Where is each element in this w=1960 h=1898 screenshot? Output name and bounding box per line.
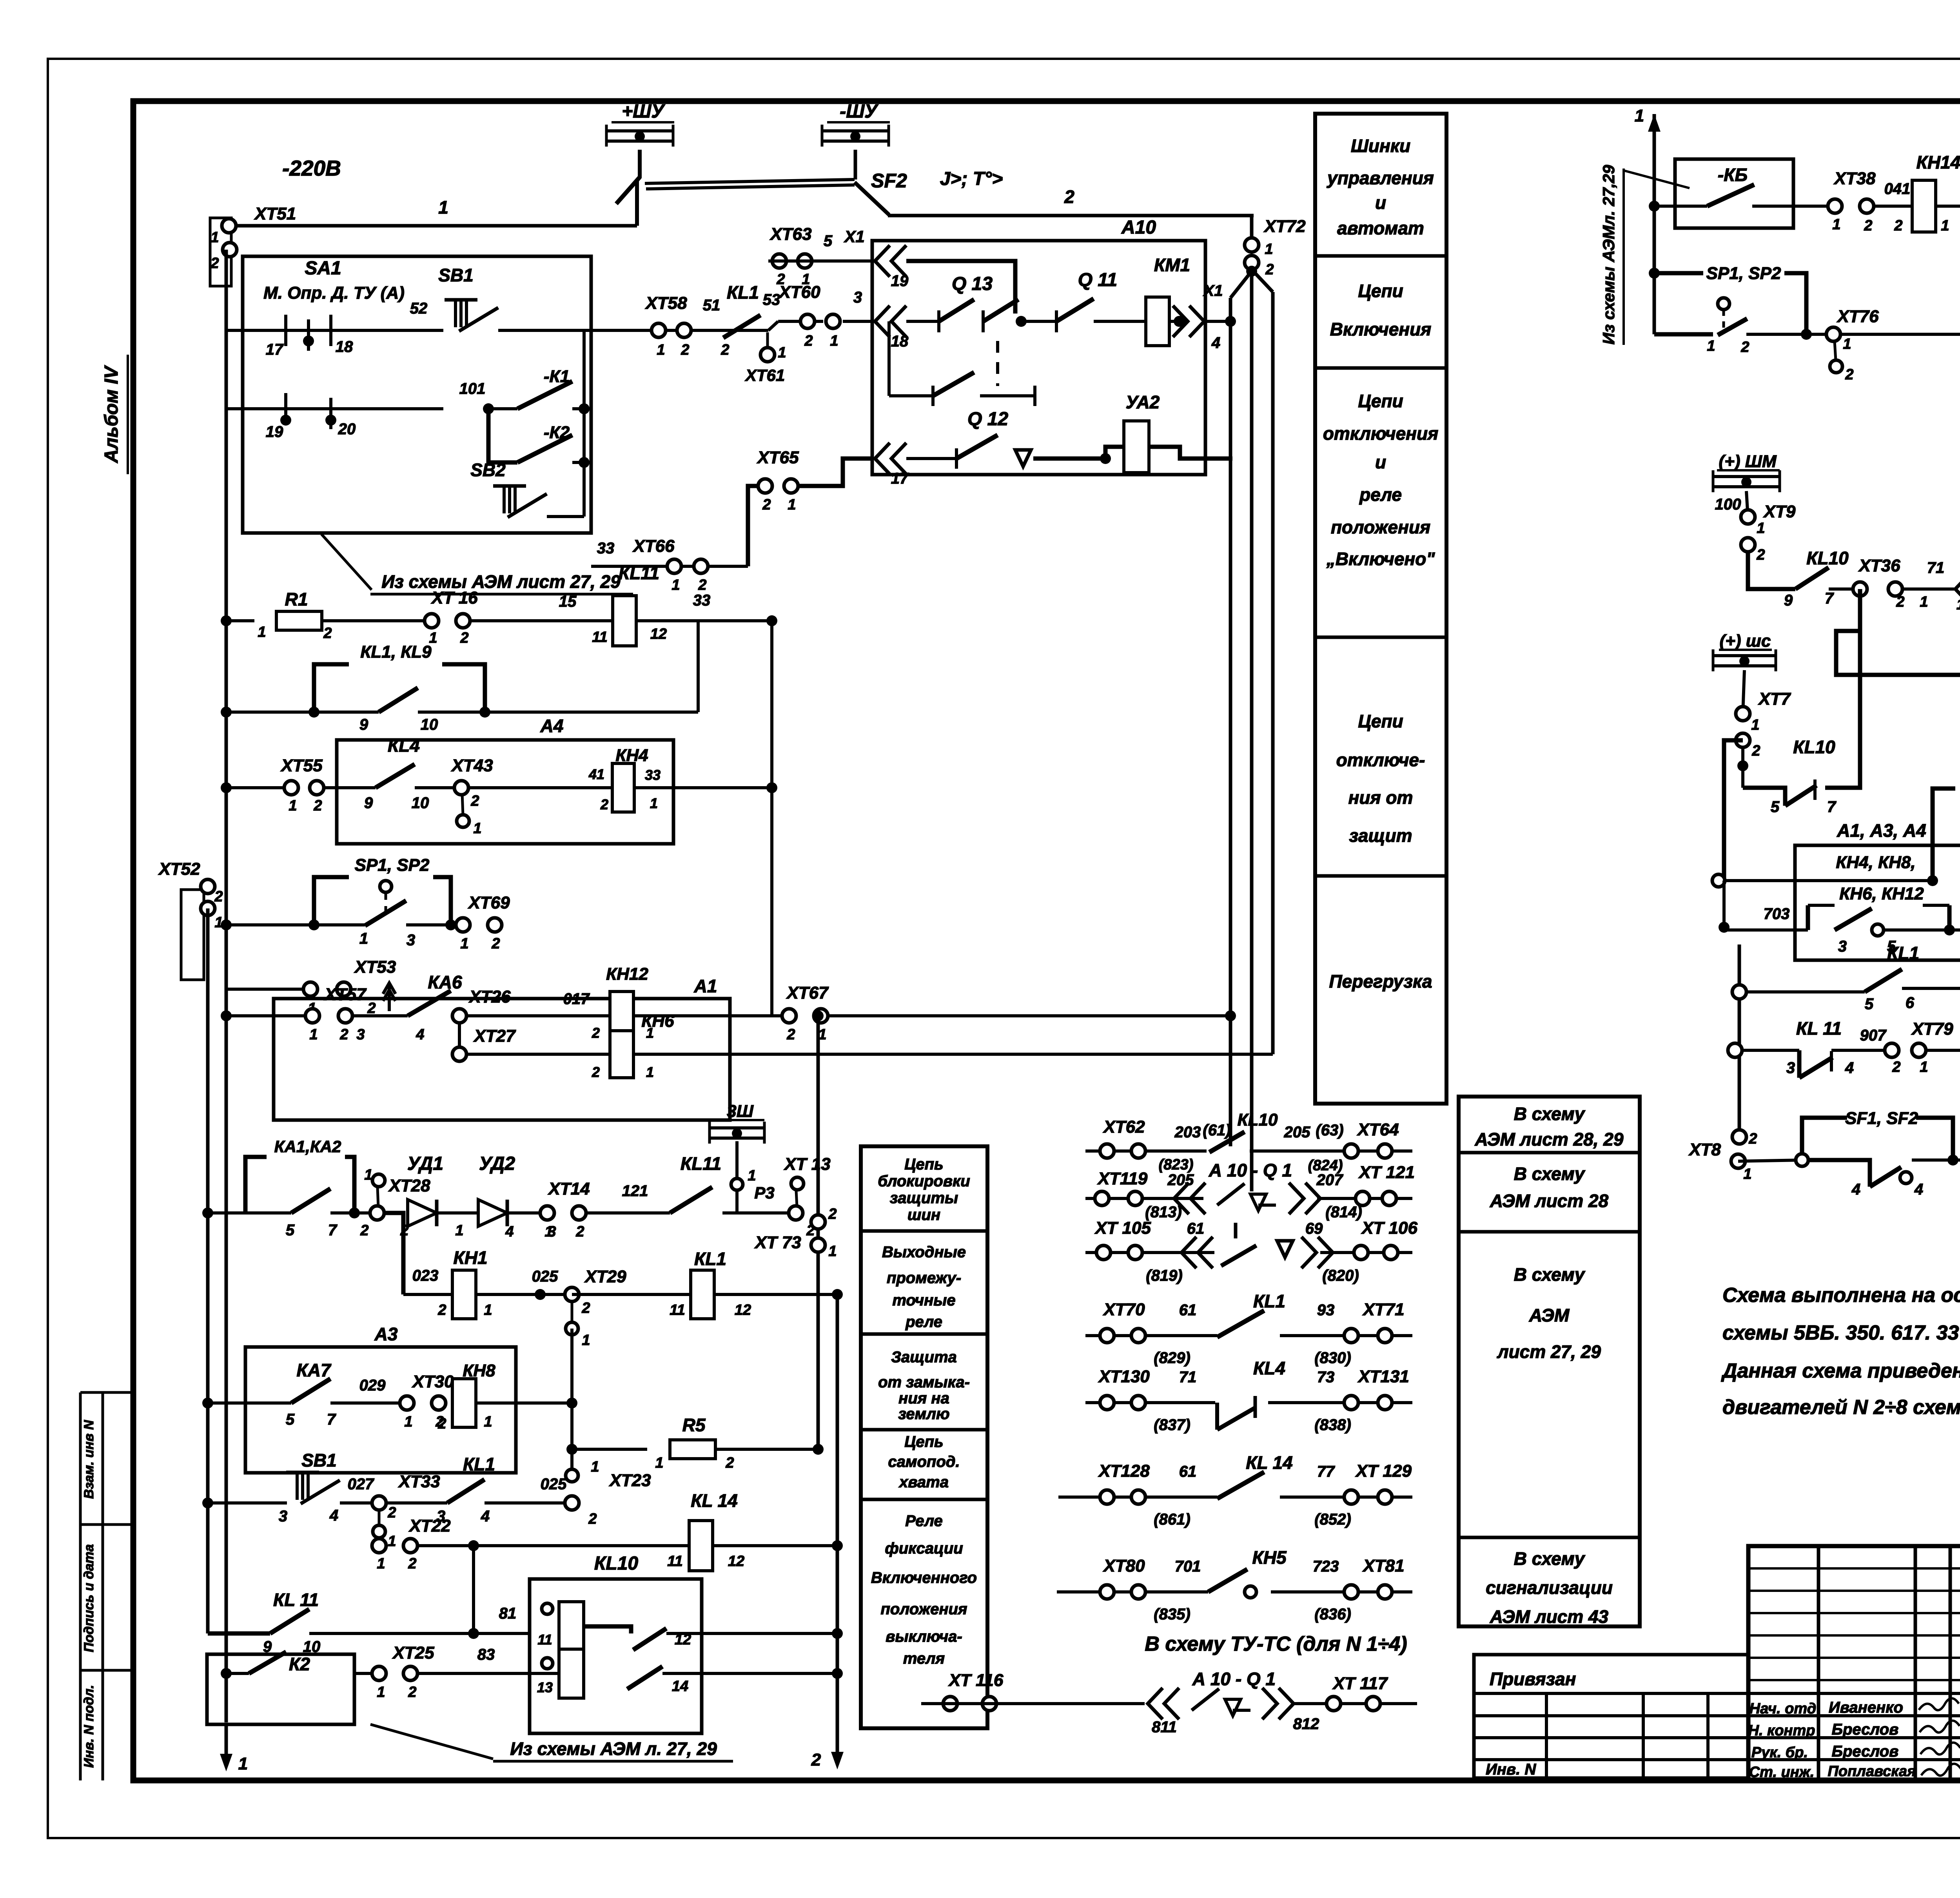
relay KL1 (11-12) [670, 1249, 751, 1319]
svg-text:XT80: XT80 [1102, 1556, 1145, 1575]
contact KL1 (3-4) [386, 1454, 495, 1525]
wire 1 top bus [235, 197, 637, 226]
svg-text:теля: теля [903, 1650, 945, 1667]
terminal XT65 [756, 448, 873, 513]
svg-text:2: 2 [1751, 743, 1760, 759]
svg-text:11: 11 [537, 1632, 552, 1648]
svg-text:4: 4 [1914, 1181, 1923, 1198]
terminal XT26 / wire 017 [451, 987, 610, 1023]
contact KL4 (A4) [364, 735, 614, 812]
svg-text:реле: реле [905, 1313, 942, 1331]
svg-text:„Включено": „Включено" [1326, 549, 1435, 569]
terminal XT51 [210, 204, 296, 286]
svg-text:1: 1 [377, 1684, 385, 1700]
svg-text:1: 1 [388, 1533, 396, 1550]
svg-text:703: 703 [1764, 905, 1790, 923]
resistor R5 row [572, 1415, 824, 1471]
wire to KH1 row [384, 1213, 403, 1294]
svg-text:Рук. бр.: Рук. бр. [1751, 1744, 1808, 1761]
terminal XT69 [456, 893, 510, 952]
spare [0, 0, 2, 2]
svg-text:XT26: XT26 [468, 987, 511, 1006]
svg-text:025: 025 [532, 1268, 558, 1285]
svg-text:SF1, SF2: SF1, SF2 [1845, 1109, 1918, 1128]
wire 1 feeder arrow [1635, 106, 1661, 161]
svg-text:А1: А1 [694, 976, 717, 996]
terminal XT43 [450, 756, 493, 837]
svg-text:XT27: XT27 [473, 1026, 516, 1046]
contact row XT130-KL4-XT131 [1085, 1358, 1412, 1434]
trunk wire T1 [817, 1016, 820, 1449]
svg-text:71: 71 [1927, 559, 1945, 576]
relay KH1 [437, 1247, 492, 1319]
svg-text:6: 6 [1906, 994, 1915, 1012]
note Из схемы АЭМл.27,29 (rotated) [1599, 165, 1690, 345]
link 703 down [1722, 881, 1726, 930]
wire Q12 to YA2 [1033, 447, 1124, 464]
svg-text:(+) шс: (+) шс [1720, 631, 1771, 651]
svg-text:XT128: XT128 [1098, 1461, 1150, 1481]
svg-text:R1: R1 [285, 589, 308, 609]
svg-text:20: 20 [338, 421, 356, 438]
svg-text:Цепь: Цепь [904, 1433, 944, 1450]
svg-text:ния на: ния на [898, 1390, 949, 1407]
svg-text:12: 12 [728, 1553, 744, 1570]
wire 023 [403, 1267, 452, 1294]
svg-text:Альбом IV: Альбом IV [101, 365, 122, 463]
svg-text:положения: положения [881, 1601, 967, 1618]
terminal XT66 / wire 33 [591, 486, 759, 593]
svg-text:5: 5 [286, 1411, 295, 1428]
svg-text:Инв. N подл.: Инв. N подл. [82, 1685, 96, 1768]
svg-text:2: 2 [210, 255, 219, 272]
svg-text:69: 69 [1305, 1220, 1323, 1237]
svg-text:Схема выполнена на основ: Схема выполнена на основании заводской п… [1722, 1284, 1960, 1307]
svg-text:КL 14: КL 14 [691, 1490, 738, 1511]
svg-text:9: 9 [1784, 592, 1793, 609]
svg-text:11: 11 [667, 1553, 682, 1570]
svg-text:027: 027 [348, 1476, 374, 1493]
svg-text:205: 205 [1167, 1171, 1194, 1189]
svg-text:XT131: XT131 [1357, 1367, 1409, 1386]
svg-text:Поплавская: Поплавская [1828, 1763, 1916, 1780]
svg-text:XT71: XT71 [1362, 1300, 1404, 1319]
wire K2row to trunk [530, 1668, 843, 1679]
svg-text:3Ш: 3Ш [727, 1102, 753, 1121]
automat box A10 [872, 217, 1205, 475]
svg-text:положения: положения [1331, 517, 1430, 537]
svg-text:КL11: КL11 [681, 1153, 721, 1174]
link XT7 to KH1 row [1724, 740, 1743, 881]
trunk bottom arrow 2 [811, 1722, 844, 1769]
double line to SF2 [645, 179, 855, 189]
wire A4 out [634, 782, 777, 793]
svg-text:100: 100 [1715, 496, 1741, 513]
svg-text:1: 1 [671, 577, 680, 593]
svg-text:XT9: XT9 [1763, 502, 1796, 521]
push button SB2 (SA1 box) [470, 460, 547, 517]
svg-text:XT72: XT72 [1263, 217, 1306, 236]
svg-text:Цепи: Цепи [1358, 391, 1403, 411]
link XT26-XT27 [458, 1022, 461, 1054]
title block signature table [1748, 1546, 1960, 1780]
svg-text:1: 1 [1743, 1166, 1751, 1182]
contact KL11 (3-4) [1728, 1018, 1892, 1078]
terminal XT79 [1885, 1019, 1960, 1075]
bus 3Ш [710, 1102, 764, 1144]
terminal XT13 [783, 1155, 830, 1239]
svg-text:АЭМ лист 28: АЭМ лист 28 [1490, 1191, 1609, 1211]
svg-text:17: 17 [266, 341, 284, 358]
svg-text:А1, А3, А4: А1, А3, А4 [1837, 820, 1926, 841]
svg-text:18: 18 [336, 338, 353, 355]
svg-text:4: 4 [505, 1224, 514, 1240]
svg-text:18: 18 [891, 333, 909, 350]
wire 2 top bus [888, 187, 1254, 216]
trunk right [1254, 272, 1273, 1054]
svg-text:КL10: КL10 [1806, 548, 1849, 568]
terminal XT27 [452, 1026, 654, 1080]
current relay contacts KA1,KA2 [202, 1137, 377, 1239]
svg-text:(+) ШМ: (+) ШМ [1719, 452, 1777, 471]
svg-text:2: 2 [1864, 218, 1872, 234]
pressure switches SP1,SP2 (right) [1654, 264, 1833, 355]
svg-text:XT28: XT28 [388, 1176, 430, 1195]
wire X1-4 out [1205, 316, 1236, 327]
terminal XT33 [372, 1472, 440, 1550]
svg-text:XT25: XT25 [392, 1643, 434, 1662]
svg-text:Шинки: Шинки [1351, 136, 1410, 156]
svg-text:Бреслов: Бреслов [1832, 1721, 1899, 1738]
wire 53 to A10 pin 18 [843, 289, 873, 321]
svg-text:КL1: КL1 [1253, 1291, 1285, 1311]
relay KH12 (A1) [592, 964, 654, 1041]
contact row XT128-KL14-XT129 [1085, 1452, 1412, 1528]
svg-text:2: 2 [1748, 1131, 1757, 1147]
wire from +ШУ [638, 150, 642, 178]
svg-text:выключа-: выключа- [886, 1628, 962, 1645]
svg-text:Бреслов: Бреслов [1832, 1743, 1899, 1760]
svg-text:-КБ: -КБ [1718, 165, 1748, 185]
breaker aux contact Q12 [906, 409, 1031, 469]
svg-text:КМ1: КМ1 [1154, 255, 1190, 275]
device box A1 [274, 976, 730, 1120]
svg-text:и: и [1375, 452, 1386, 472]
svg-text:025: 025 [541, 1476, 567, 1493]
terminal XT61 stub [745, 332, 786, 384]
svg-text:XT 105: XT 105 [1094, 1218, 1151, 1238]
terminal XT8 [1688, 1130, 1757, 1182]
svg-text:1: 1 [364, 1167, 372, 1183]
svg-text:2: 2 [491, 935, 500, 952]
svg-text:(837): (837) [1154, 1416, 1190, 1434]
diode УД2 [478, 1153, 556, 1240]
terminal XT80 left [1057, 1590, 1085, 1593]
svg-text:Подпись и дата: Подпись и дата [82, 1544, 96, 1652]
svg-text:Включения: Включения [1330, 319, 1432, 339]
svg-text:77: 77 [1317, 1463, 1335, 1480]
svg-text:М. Опр. Д. ТУ (А): М. Опр. Д. ТУ (А) [263, 283, 405, 303]
A10 connector X1 pin 18 [875, 306, 909, 350]
terminal XT76 [1826, 307, 1879, 383]
trunk 1 vertical [1649, 114, 1660, 334]
wire XT67 to risers [813, 1010, 1236, 1021]
svg-text:КН1: КН1 [453, 1247, 487, 1268]
svg-text:73: 73 [1317, 1369, 1335, 1386]
link XT22-KL11row [468, 1546, 479, 1639]
svg-text:(852): (852) [1314, 1511, 1351, 1528]
contact KL10-12 [584, 1626, 702, 1650]
terminal XT128 left [1058, 1496, 1085, 1499]
svg-text:УД2: УД2 [479, 1153, 515, 1174]
svg-text:2: 2 [1896, 594, 1904, 610]
svg-text:Инв. N: Инв. N [1486, 1761, 1536, 1778]
svg-text:(819): (819) [1146, 1267, 1182, 1284]
svg-text:SB1: SB1 [301, 1450, 336, 1470]
svg-text:Q 13: Q 13 [952, 274, 993, 294]
collector wire in SA1 box [498, 330, 590, 517]
routing destination column (В схему ...) [1459, 1097, 1640, 1627]
svg-text:205: 205 [1284, 1124, 1310, 1141]
contact row XT80-KH5-XT81 [1085, 1547, 1412, 1623]
terminal XT14 [540, 1179, 670, 1240]
contact KL1 (5-6) [1732, 943, 1960, 1013]
svg-text:отключения: отключения [1323, 423, 1438, 444]
svg-text:XT63: XT63 [769, 225, 811, 244]
svg-text:XT33: XT33 [397, 1472, 440, 1491]
svg-text:XT 106: XT 106 [1361, 1218, 1417, 1238]
relay KH4 (A4) [588, 746, 661, 812]
svg-text:1: 1 [258, 624, 266, 640]
device box A1,A3,A4 КН contacts [1795, 820, 1960, 960]
svg-text:КН12: КН12 [606, 964, 648, 984]
svg-text:4: 4 [1211, 334, 1220, 352]
svg-text:5: 5 [824, 232, 833, 250]
svg-text:2: 2 [408, 1684, 416, 1700]
svg-text:4: 4 [1845, 1059, 1854, 1077]
svg-text:1: 1 [289, 798, 297, 814]
svg-text:Q 11: Q 11 [1078, 270, 1118, 290]
svg-text:XT61: XT61 [745, 366, 785, 384]
svg-text:1: 1 [650, 795, 658, 811]
pressure switches SP1,SP2 row [221, 856, 463, 949]
svg-text:А3: А3 [374, 1324, 398, 1344]
svg-text:71: 71 [1179, 1369, 1197, 1386]
svg-text:5: 5 [286, 1222, 295, 1239]
svg-text:2: 2 [400, 1222, 408, 1239]
trunk diagonal [1230, 271, 1252, 298]
svg-text:2: 2 [600, 796, 608, 812]
svg-text:1: 1 [830, 333, 838, 349]
svg-text:XT119: XT119 [1097, 1169, 1148, 1188]
svg-text:4: 4 [329, 1507, 338, 1524]
svg-text:точные: точные [892, 1292, 955, 1309]
svg-text:XT130: XT130 [1098, 1367, 1150, 1386]
svg-text:(836): (836) [1314, 1606, 1351, 1623]
terminal XT25 row [354, 1643, 530, 1700]
svg-text:Цепи: Цепи [1358, 281, 1403, 301]
contact row XT105-XT106 [1085, 1218, 1417, 1284]
A10 connector X1 pin 4 [1173, 282, 1223, 352]
svg-text:53: 53 [763, 291, 780, 308]
svg-text:самопод.: самопод. [888, 1453, 960, 1470]
svg-text:Взам. инв N: Взам. инв N [82, 1419, 96, 1499]
svg-text:шин: шин [907, 1206, 940, 1224]
svg-text:11: 11 [670, 1302, 685, 1318]
svg-text:83: 83 [477, 1646, 495, 1663]
svg-text:КL11: КL11 [619, 563, 659, 583]
svg-text:от замыка-: от замыка- [878, 1374, 970, 1391]
svg-text:XT 116: XT 116 [948, 1671, 1004, 1690]
svg-text:18: 18 [1956, 596, 1960, 613]
svg-text:2: 2 [592, 1025, 600, 1041]
svg-text:1: 1 [646, 1064, 654, 1080]
svg-text:XT 13: XT 13 [783, 1155, 830, 1174]
terminal XT58 [644, 294, 720, 358]
note Из схемы АЭМ лист 27,29 (upper) [321, 534, 633, 594]
svg-text:52: 52 [410, 300, 428, 317]
relay KH14 [1912, 152, 1960, 234]
svg-text:КН4, КН8,: КН4, КН8, [1836, 853, 1915, 872]
svg-text:КL1: КL1 [1887, 943, 1919, 963]
svg-text:КL 11: КL 11 [273, 1590, 319, 1610]
svg-text:19: 19 [891, 272, 909, 290]
svg-text:Привязан: Привязан [1490, 1669, 1576, 1689]
svg-text:лист 27, 29: лист 27, 29 [1497, 1341, 1601, 1362]
svg-text:2: 2 [1756, 547, 1765, 563]
svg-text:723: 723 [1313, 1558, 1339, 1575]
svg-text:5: 5 [1865, 995, 1874, 1013]
svg-text:КL10: КL10 [594, 1553, 639, 1574]
wire 51 [584, 321, 823, 330]
link KL11 to KL19 row [697, 621, 700, 712]
svg-text:XT57: XT57 [323, 985, 367, 1004]
svg-text:XT30: XT30 [411, 1372, 454, 1391]
svg-text:(61): (61) [1203, 1122, 1230, 1139]
contact KL10 (9-7) [1784, 548, 1849, 609]
svg-text:3: 3 [1786, 1059, 1795, 1077]
terminal XT22 row [372, 1516, 689, 1572]
svg-text:(829): (829) [1154, 1349, 1190, 1367]
svg-text:XT 16: XT 16 [430, 588, 478, 607]
wire РЗ [722, 1141, 796, 1213]
terminal XT53 [226, 957, 396, 1017]
wire from -ШУ [854, 150, 857, 179]
svg-text:812: 812 [1293, 1715, 1319, 1733]
function label column (Цепь блокировки...выключателя) [861, 1146, 987, 1728]
svg-text:XT 117: XT 117 [1332, 1674, 1388, 1693]
svg-text:12: 12 [650, 626, 667, 642]
svg-text:10: 10 [412, 794, 429, 812]
svg-text:2: 2 [1064, 187, 1074, 207]
svg-text:1: 1 [438, 197, 448, 218]
wire KH6 to riser [633, 1053, 1273, 1056]
svg-text:КL1: КL1 [694, 1249, 726, 1269]
terminal XT38 [1793, 169, 1912, 234]
svg-text:3: 3 [356, 1026, 365, 1043]
svg-text:11: 11 [592, 629, 607, 645]
svg-text:15: 15 [559, 593, 577, 610]
device box A4 [337, 716, 673, 844]
bus (+)ШС [1713, 631, 1776, 671]
svg-text:XT7: XT7 [1758, 689, 1791, 709]
svg-text:(861): (861) [1154, 1511, 1190, 1528]
terminal XT28 [360, 1167, 430, 1239]
relay KL11 (11-12) [592, 563, 667, 646]
svg-text:2: 2 [811, 1750, 821, 1769]
svg-text:1: 1 [404, 1414, 412, 1430]
svg-text:XT36: XT36 [1858, 556, 1900, 575]
svg-text:управления: управления [1327, 168, 1434, 188]
left trunk (right half) [1738, 944, 1741, 1137]
svg-text:Нач. отд: Нач. отд [1749, 1700, 1816, 1717]
svg-text:-К1: -К1 [544, 367, 570, 386]
terminal XT7 [1736, 670, 1791, 788]
svg-text:Цепь: Цепь [904, 1156, 944, 1173]
terminal XT73 [754, 1206, 837, 1260]
svg-text:Иваненко: Иваненко [1829, 1699, 1903, 1716]
svg-text:(63): (63) [1316, 1122, 1343, 1139]
svg-text:5: 5 [1771, 798, 1780, 816]
svg-text:XT 121: XT 121 [1358, 1163, 1415, 1182]
svg-text:КL1, КL9: КL1, КL9 [360, 642, 432, 662]
svg-text:14: 14 [672, 1678, 688, 1695]
svg-text:2: 2 [681, 342, 689, 358]
svg-text:АЭМ: АЭМ [1529, 1305, 1570, 1325]
svg-text:XT23: XT23 [608, 1471, 651, 1490]
diode УД1 [384, 1153, 481, 1239]
title block signatures [1748, 1698, 1960, 1780]
svg-text:13: 13 [537, 1679, 553, 1695]
contact row XT70-KL1-XT71 [1085, 1291, 1412, 1367]
svg-text:1: 1 [1920, 1059, 1928, 1075]
svg-text:XT58: XT58 [644, 294, 687, 313]
contact -K1 [459, 367, 572, 414]
terminal XT72 [1245, 217, 1306, 278]
device box A3 [245, 1324, 516, 1473]
svg-text:SB2: SB2 [470, 460, 506, 480]
svg-text:Данная схема приведена д: Данная схема приведена для двигателя N 1… [1721, 1360, 1960, 1382]
svg-text:промежу-: промежу- [887, 1269, 961, 1287]
svg-text:XT62: XT62 [1102, 1117, 1145, 1137]
terminal XT116 [921, 1671, 1058, 1711]
notes text [1721, 1284, 1960, 1419]
svg-text:7: 7 [327, 1411, 336, 1428]
svg-text:811: 811 [1152, 1719, 1177, 1736]
svg-text:(838): (838) [1314, 1416, 1351, 1434]
bus (+)ШМ [1713, 452, 1780, 492]
svg-text:К2: К2 [289, 1654, 310, 1674]
svg-text:КА7: КА7 [296, 1360, 331, 1380]
svg-text:81: 81 [499, 1605, 517, 1622]
svg-text:КН4: КН4 [615, 746, 648, 765]
svg-text:93: 93 [1317, 1302, 1335, 1319]
svg-text:101: 101 [459, 380, 486, 397]
svg-text:КL 14: КL 14 [1246, 1452, 1293, 1473]
svg-text:2: 2 [720, 342, 729, 358]
svg-text:1: 1 [1707, 338, 1715, 354]
svg-text:1: 1 [238, 1754, 248, 1773]
terminal XT67 [782, 983, 829, 1043]
svg-text:2: 2 [460, 630, 468, 646]
svg-text:1: 1 [473, 820, 481, 837]
svg-text:КL10: КL10 [1238, 1110, 1278, 1129]
svg-text:3: 3 [407, 932, 415, 949]
svg-text:SF2: SF2 [871, 170, 907, 192]
trunk X1-4 riser [1229, 298, 1232, 1151]
svg-text:1: 1 [1832, 216, 1840, 233]
svg-text:SP1, SP2: SP1, SP2 [355, 856, 430, 875]
